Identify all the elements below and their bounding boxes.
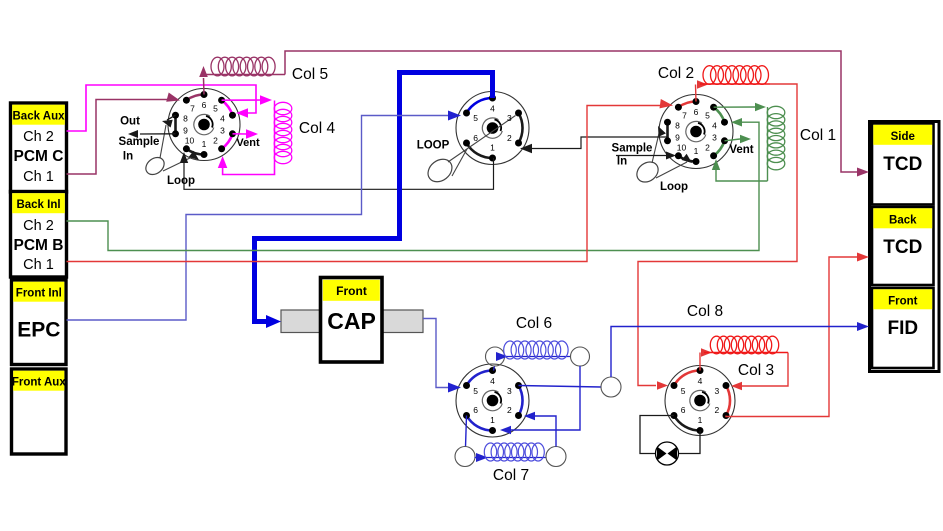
wire V3 port 5 to Col 1 (green) <box>714 106 755 108</box>
wire V4 port 6 to union (blue) <box>466 416 467 448</box>
wire V2 port 1 to V1 port 10 (loop) <box>184 158 494 189</box>
module PCM B (Back Inl) <box>11 192 67 278</box>
valve V4 (6-port) <box>456 364 529 437</box>
svg-text:2: 2 <box>213 135 218 145</box>
flow arrow V1 port 1 <box>189 151 199 160</box>
module PCM C (Back Aux) <box>11 103 67 192</box>
svg-text:CAP: CAP <box>327 308 376 334</box>
wire V1 port 5 to Col 4 (magenta) <box>222 99 262 101</box>
wire Sample In to V3 port 10 <box>616 155 666 157</box>
svg-text:Loop: Loop <box>660 181 688 193</box>
svg-text:7: 7 <box>682 111 687 121</box>
detector TCD (Back) <box>872 207 934 285</box>
valve V3 (10-port) <box>659 95 733 169</box>
svg-text:8: 8 <box>675 121 680 131</box>
wire V3 port 9 to V2 port 2 <box>532 137 668 149</box>
wire V5 port 1 to shutoff valve <box>678 431 700 454</box>
svg-text:9: 9 <box>675 133 680 143</box>
union fitting (Col 6 outlet) <box>571 347 590 366</box>
wire EPC to V2 port 5 <box>67 116 449 321</box>
capillary Col 3 coil (red) <box>704 352 788 354</box>
svg-text:Back Aux: Back Aux <box>13 111 66 123</box>
wire PCM C Ch1 to V1 port 7 (maroon) <box>67 100 168 175</box>
svg-text:4: 4 <box>490 376 495 386</box>
module Front Aux <box>12 369 67 454</box>
valve V5 (6-port) <box>665 366 735 436</box>
wire V4 port 3 to union (blue) <box>519 386 602 388</box>
wire PCM B Ch2 to V3 port 4 (green) <box>67 122 760 250</box>
svg-text:FID: FID <box>887 318 918 339</box>
svg-text:Vent: Vent <box>729 144 753 156</box>
svg-text:6: 6 <box>694 107 699 117</box>
wire V5 port 2 to TCD Back (red) <box>726 257 858 417</box>
capillary Col 7 coil (blue) <box>475 457 547 459</box>
wire V2 port 4 to CAP inlet (thick blue) <box>255 73 493 322</box>
svg-text:6: 6 <box>473 133 478 143</box>
svg-text:PCM C: PCM C <box>14 148 64 165</box>
wire V1 port 6 to Col 5 (maroon) <box>203 78 206 95</box>
wire CAP to V4 port 5 <box>423 319 448 388</box>
valve V1 pin numbers <box>183 100 225 149</box>
wire V1 port 8 Out <box>167 115 176 120</box>
svg-text:2: 2 <box>507 133 512 143</box>
svg-text:10: 10 <box>185 135 195 145</box>
svg-text:Loop: Loop <box>167 175 195 187</box>
wire PCM B Ch1 to V3 port 7 (red) <box>67 106 662 262</box>
svg-text:TCD: TCD <box>883 154 922 175</box>
flow arrow V3 port 8 <box>658 126 666 137</box>
svg-text:Ch 2: Ch 2 <box>23 129 54 145</box>
capillary Col 4 coil (magenta) <box>274 101 276 164</box>
valve V3 handle <box>633 129 687 186</box>
svg-text:Sample: Sample <box>612 143 653 155</box>
svg-text:9: 9 <box>183 126 188 136</box>
svg-text:3: 3 <box>712 133 717 143</box>
valve V1 handle <box>143 125 192 178</box>
svg-text:Col 5: Col 5 <box>292 66 328 83</box>
svg-text:1: 1 <box>202 139 207 149</box>
wire Col 5 to TCD Side (maroon) <box>285 51 858 172</box>
svg-text:6: 6 <box>681 405 686 415</box>
valve V1 (10-port) <box>168 89 240 161</box>
svg-text:10: 10 <box>677 142 687 152</box>
shutoff valve (bowtie) <box>656 442 679 465</box>
module EPC (Front Inl) <box>12 280 67 365</box>
svg-text:Front: Front <box>888 296 918 308</box>
union fitting (Col 8) <box>601 377 621 397</box>
svg-text:Col 8: Col 8 <box>687 303 723 320</box>
valve V3 pin numbers <box>675 107 717 156</box>
svg-text:1: 1 <box>698 415 703 425</box>
svg-text:Front Aux: Front Aux <box>12 377 66 389</box>
svg-text:4: 4 <box>490 104 495 114</box>
svg-text:8: 8 <box>183 114 188 124</box>
svg-text:5: 5 <box>473 113 478 123</box>
wire Col 7 union to V4 port 2 (blue) <box>534 416 556 447</box>
svg-text:Vent: Vent <box>236 137 260 149</box>
detector FID (Front) <box>872 288 934 368</box>
inlet CAP left fitting <box>281 310 321 333</box>
valve V2 handle <box>424 116 516 187</box>
union fitting (Col 6 inlet) <box>486 347 505 366</box>
svg-text:Ch 2: Ch 2 <box>23 218 54 234</box>
svg-text:Col 4: Col 4 <box>299 120 336 137</box>
svg-text:LOOP: LOOP <box>417 140 450 152</box>
svg-text:Front Inl: Front Inl <box>16 288 62 300</box>
valve V2 (6-port) <box>456 92 529 165</box>
wire V3 port 3 to Vent (green) <box>725 139 741 141</box>
valve V4 pin numbers <box>473 376 512 425</box>
svg-text:Col 2: Col 2 <box>658 65 694 82</box>
wire Col 8 to FID (blue) <box>611 327 858 378</box>
svg-text:5: 5 <box>705 111 710 121</box>
wire Col 3 to V5 port 3 (red) <box>741 353 788 387</box>
wire V1 port 3 to Vent (magenta) <box>233 133 248 135</box>
svg-text:TCD: TCD <box>883 237 922 258</box>
svg-text:Out: Out <box>120 116 140 128</box>
svg-text:6: 6 <box>202 100 207 110</box>
svg-text:Side: Side <box>891 131 915 143</box>
svg-text:4: 4 <box>220 114 225 124</box>
wire V1 port 9 Sample In <box>140 133 176 135</box>
svg-text:2: 2 <box>507 405 512 415</box>
svg-text:In: In <box>617 156 627 168</box>
svg-text:4: 4 <box>698 376 703 386</box>
wire V5 port 4 to Col 3 (red) <box>699 353 701 371</box>
capillary Col 2 coil (red) <box>700 83 770 85</box>
inlet CAP right fitting <box>382 310 423 333</box>
svg-text:Back: Back <box>889 215 917 227</box>
svg-text:Col 3: Col 3 <box>738 362 774 379</box>
svg-text:1: 1 <box>694 146 699 156</box>
detector housing <box>870 122 940 372</box>
svg-text:5: 5 <box>681 386 686 396</box>
svg-text:3: 3 <box>715 386 720 396</box>
valve V5 pin numbers <box>681 376 720 425</box>
svg-text:3: 3 <box>220 126 225 136</box>
capillary Col 1 coil (green) <box>767 107 769 181</box>
svg-text:5: 5 <box>213 104 218 114</box>
svg-text:5: 5 <box>473 386 478 396</box>
svg-text:3: 3 <box>507 113 512 123</box>
svg-text:PCM B: PCM B <box>14 237 64 254</box>
inlet CAP (Front) <box>321 278 383 363</box>
union fitting (Col 7 outlet) <box>546 447 566 467</box>
svg-text:2: 2 <box>705 142 710 152</box>
svg-text:In: In <box>123 151 133 163</box>
svg-text:Ch 1: Ch 1 <box>23 257 54 273</box>
svg-text:Back Inl: Back Inl <box>16 199 60 211</box>
svg-text:Col 7: Col 7 <box>493 467 529 484</box>
wire V5 port 6 to shutoff valve <box>640 416 674 454</box>
capillary Col 6 coil (blue) <box>505 356 571 358</box>
capillary Col 5 coil (maroon) <box>206 74 285 76</box>
union fitting (Col 7 inlet) <box>455 447 475 467</box>
wire PCM C Ch2 to V1 port 4 (magenta) <box>67 85 257 131</box>
svg-text:Col 6: Col 6 <box>516 315 552 332</box>
svg-text:2: 2 <box>715 405 720 415</box>
wire Col 6 union to V4 port 1 (blue) <box>510 366 580 430</box>
svg-text:4: 4 <box>712 121 717 131</box>
svg-text:1: 1 <box>490 415 495 425</box>
wire Col 4 to V1 port 2 (magenta) <box>223 163 275 175</box>
flow arrow V3 port 1 <box>682 154 692 163</box>
svg-text:1: 1 <box>490 143 495 153</box>
wire Col 1 to V3 port 2 (green) <box>716 168 768 181</box>
svg-text:3: 3 <box>507 386 512 396</box>
wire V3 port 6 to Col 2 (red) <box>695 85 698 102</box>
svg-text:Sample: Sample <box>119 136 160 148</box>
svg-text:6: 6 <box>473 405 478 415</box>
svg-text:Col 1: Col 1 <box>800 127 836 144</box>
wire Col 2 to V5 port 5 (red) <box>638 84 797 386</box>
valve V2 pin numbers <box>473 104 512 153</box>
svg-text:EPC: EPC <box>17 319 60 342</box>
wire V4 port 4 to union fitting <box>494 366 495 371</box>
svg-text:Front: Front <box>336 284 367 298</box>
svg-text:Ch 1: Ch 1 <box>23 169 54 185</box>
detector TCD (Side) <box>872 124 934 205</box>
svg-text:7: 7 <box>190 104 195 114</box>
